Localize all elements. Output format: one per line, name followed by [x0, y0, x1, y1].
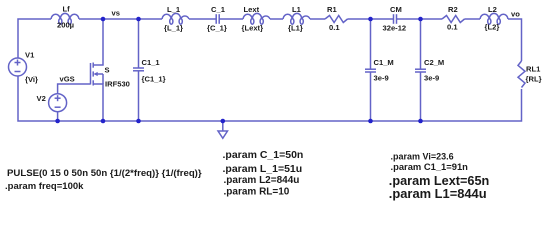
svg-text:{L1}: {L1} — [288, 24, 303, 33]
svg-text:IRF530: IRF530 — [105, 80, 130, 89]
svg-text:Lf: Lf — [63, 5, 71, 14]
svg-text:Lext: Lext — [244, 5, 260, 14]
svg-text:0.1: 0.1 — [329, 23, 340, 32]
svg-text:{C_1}: {C_1} — [207, 24, 227, 33]
svg-text:3e-9: 3e-9 — [424, 74, 439, 83]
svg-text:R2: R2 — [448, 5, 458, 14]
svg-text:vs: vs — [112, 9, 120, 18]
svg-text:C1_M: C1_M — [374, 58, 394, 67]
svg-text:{Lext}: {Lext} — [242, 24, 264, 33]
svg-text:32e-12: 32e-12 — [383, 24, 407, 33]
svg-text:RL1: RL1 — [526, 65, 541, 74]
svg-text:.param L_1=51u: .param L_1=51u — [223, 163, 303, 175]
svg-text:PULSE(0 15 0 50n 50n {1/(2*fre: PULSE(0 15 0 50n 50n {1/(2*freq)} {1/(fr… — [7, 168, 202, 179]
svg-text:{RL}: {RL} — [526, 75, 542, 84]
svg-text:.param Vi=23.6: .param Vi=23.6 — [391, 152, 454, 162]
svg-text:L_1: L_1 — [167, 5, 181, 14]
svg-text:.param RL=10: .param RL=10 — [224, 187, 290, 198]
svg-text:C1_1: C1_1 — [142, 58, 161, 67]
svg-text:200µ: 200µ — [57, 21, 74, 30]
svg-text:{Vi}: {Vi} — [25, 75, 38, 84]
svg-text:.param C_1=50n: .param C_1=50n — [223, 149, 304, 161]
svg-text:0.1: 0.1 — [447, 23, 458, 32]
svg-text:.param L1=844u: .param L1=844u — [389, 186, 487, 201]
svg-text:{C1_1}: {C1_1} — [142, 75, 166, 84]
svg-text:L1: L1 — [292, 5, 302, 14]
svg-text:.param L2=844u: .param L2=844u — [224, 175, 300, 186]
svg-text:S: S — [105, 66, 110, 75]
svg-text:.param C1_1=91n: .param C1_1=91n — [391, 161, 469, 172]
svg-text:CM: CM — [390, 5, 402, 14]
svg-text:C2_M: C2_M — [424, 58, 444, 67]
svg-text:.param freq=100k: .param freq=100k — [5, 181, 84, 192]
svg-text:vGS: vGS — [60, 75, 75, 84]
svg-text:R1: R1 — [327, 5, 337, 14]
svg-text:{L2}: {L2} — [485, 23, 500, 32]
svg-text:V2: V2 — [37, 94, 46, 103]
svg-text:{L_1}: {L_1} — [164, 24, 183, 33]
svg-text:vo: vo — [511, 10, 520, 19]
svg-text:C_1: C_1 — [211, 5, 226, 14]
svg-text:V1: V1 — [25, 51, 35, 60]
svg-text:3e-9: 3e-9 — [374, 74, 389, 83]
svg-text:L2: L2 — [488, 5, 497, 14]
